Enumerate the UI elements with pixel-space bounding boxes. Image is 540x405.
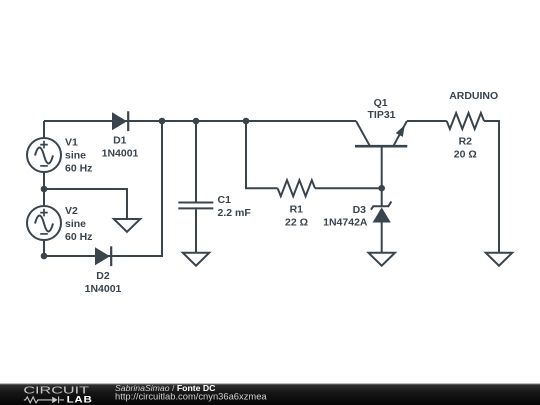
svg-text:D2: D2 — [96, 270, 110, 282]
svg-text:R1: R1 — [290, 203, 304, 215]
svg-text:60 Hz: 60 Hz — [65, 163, 92, 175]
svg-text:R2: R2 — [459, 135, 473, 147]
svg-text:ARDUINO: ARDUINO — [449, 90, 498, 102]
svg-text:http://circuitlab.com/cnyn36a6: http://circuitlab.com/cnyn36a6xzmea — [115, 391, 267, 402]
svg-text:V1: V1 — [65, 137, 78, 149]
svg-text:TIP31: TIP31 — [367, 109, 395, 121]
svg-text:1N4742A: 1N4742A — [323, 216, 368, 228]
svg-text:Q1: Q1 — [374, 97, 388, 109]
svg-text:D3: D3 — [353, 204, 367, 216]
svg-text:22 Ω: 22 Ω — [285, 216, 308, 228]
svg-text:60 Hz: 60 Hz — [65, 231, 92, 243]
svg-text:sine: sine — [65, 218, 86, 230]
svg-text:1N4001: 1N4001 — [85, 283, 122, 295]
svg-text:C1: C1 — [218, 194, 232, 206]
svg-text:1N4001: 1N4001 — [102, 147, 139, 159]
svg-text:CIRCUIT: CIRCUIT — [23, 384, 89, 395]
svg-text:2.2 mF: 2.2 mF — [218, 207, 252, 219]
svg-text:V2: V2 — [65, 205, 78, 217]
svg-text:D1: D1 — [113, 134, 127, 146]
svg-text:sine: sine — [65, 150, 86, 162]
svg-text:20 Ω: 20 Ω — [454, 148, 477, 160]
svg-text:LAB: LAB — [67, 396, 93, 405]
